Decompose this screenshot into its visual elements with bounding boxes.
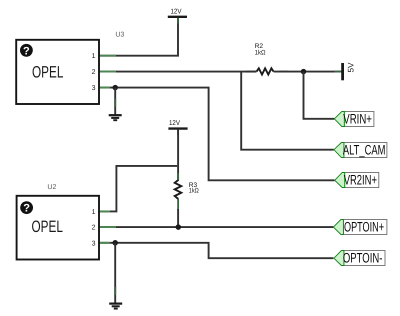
svg-text:ALT_CAM: ALT_CAM <box>343 142 386 157</box>
R2 right pin stub (green) <box>279 71 288 73</box>
pin stub 5V terminal (green) <box>335 71 342 73</box>
svg-text:OPEL: OPEL <box>32 218 63 236</box>
wire R3 bottom lead to junction <box>177 209 179 227</box>
wire U3 pin3 to VR2IN+ <box>99 88 335 181</box>
svg-text:OPTOIN+: OPTOIN+ <box>344 219 384 234</box>
R3 bottom pin stub (green) <box>177 199 179 210</box>
power +12V symbol (lower) <box>168 120 187 136</box>
junction node U2 pin3 <box>112 240 118 246</box>
junction node after R2 <box>301 69 307 75</box>
svg-text:1: 1 <box>92 53 96 60</box>
wire U2 pin2 to OPTOIN+ <box>99 226 333 228</box>
svg-text:OPEL: OPEL <box>32 63 63 81</box>
pin stub 12V top (green) <box>177 18 179 24</box>
wire U2 pin3 to OPTOIN- <box>99 243 333 258</box>
power +12V symbol (top) <box>168 8 187 23</box>
wire U3 pin1 to 12V <box>99 18 178 56</box>
svg-text:1: 1 <box>92 209 96 216</box>
resistor R3 <box>175 173 199 227</box>
svg-text:U3: U3 <box>115 31 124 38</box>
pin stub U2 pin3 (green) <box>99 242 110 244</box>
U3 logo circle ? <box>20 44 33 57</box>
U3 body <box>16 40 99 104</box>
wire junction to VRIN+ <box>304 72 335 119</box>
wire R2 right lead to junction <box>274 71 304 73</box>
pin stub 12V lower (green) <box>177 130 179 136</box>
wire U3 pin2 to R2 <box>99 71 256 73</box>
R2 zigzag body <box>257 68 274 74</box>
U2 logo circle ? <box>20 201 33 214</box>
wire 12V to R3 <box>177 129 179 180</box>
pin stub U2 pin2 (green) <box>99 226 116 228</box>
wire to ground (bottom) <box>114 243 116 303</box>
pin stub ground bottom (green) <box>114 287 116 295</box>
5V terminal bar <box>341 63 344 80</box>
wire branch to ALT_CAM <box>241 72 334 150</box>
svg-text:U2: U2 <box>47 184 56 191</box>
wire U2 pin1 to 12V rail <box>99 166 177 212</box>
svg-text:3: 3 <box>92 241 96 248</box>
svg-text:VR2IN+: VR2IN+ <box>344 172 377 187</box>
resistor R2 <box>246 43 304 75</box>
net label ALT_CAM <box>334 142 387 157</box>
wire into R2 left lead <box>246 71 256 73</box>
pin stub U3 pin3 (green) <box>99 87 110 89</box>
net label VRIN+ <box>334 111 374 126</box>
pin stub ground top (green) <box>114 99 116 107</box>
wire R2 to 5V terminal <box>304 71 342 73</box>
pin stub U2 pin1 (green) <box>99 210 110 212</box>
svg-text:2: 2 <box>92 69 96 76</box>
wire to ground (top) <box>114 88 116 115</box>
svg-text:5V: 5V <box>347 62 356 73</box>
IC U2 (OPEL) <box>17 184 99 260</box>
svg-text:12V: 12V <box>169 120 180 127</box>
junction node R3 / pin2 net <box>176 224 182 230</box>
svg-text:1kΩ: 1kΩ <box>255 49 266 56</box>
pin stub U3 pin1 (green) <box>99 55 116 57</box>
net label OPTOIN+ <box>333 219 387 234</box>
svg-text:12V: 12V <box>171 8 182 15</box>
pin stub U3 pin2 (green) <box>99 71 116 73</box>
svg-text:1kΩ: 1kΩ <box>189 188 199 195</box>
svg-text:OPTOIN-: OPTOIN- <box>343 250 383 265</box>
U2 body <box>17 196 99 260</box>
svg-text:3: 3 <box>92 85 96 92</box>
power 5V terminal bar <box>343 62 356 80</box>
net label VR2IN+ <box>335 172 379 187</box>
ground (bottom) <box>109 304 122 309</box>
junction node U3 pin3 <box>112 85 118 91</box>
svg-text:2: 2 <box>92 225 96 232</box>
ground (top) <box>109 115 122 120</box>
net label OPTOIN- <box>334 250 385 265</box>
svg-text:?: ? <box>23 45 30 57</box>
svg-text:?: ? <box>23 203 30 215</box>
R3 zigzag body <box>175 180 182 199</box>
svg-text:VRIN+: VRIN+ <box>343 111 372 126</box>
R3 top pin stub (green) <box>177 173 179 180</box>
IC U3 (OPEL) <box>16 31 124 104</box>
